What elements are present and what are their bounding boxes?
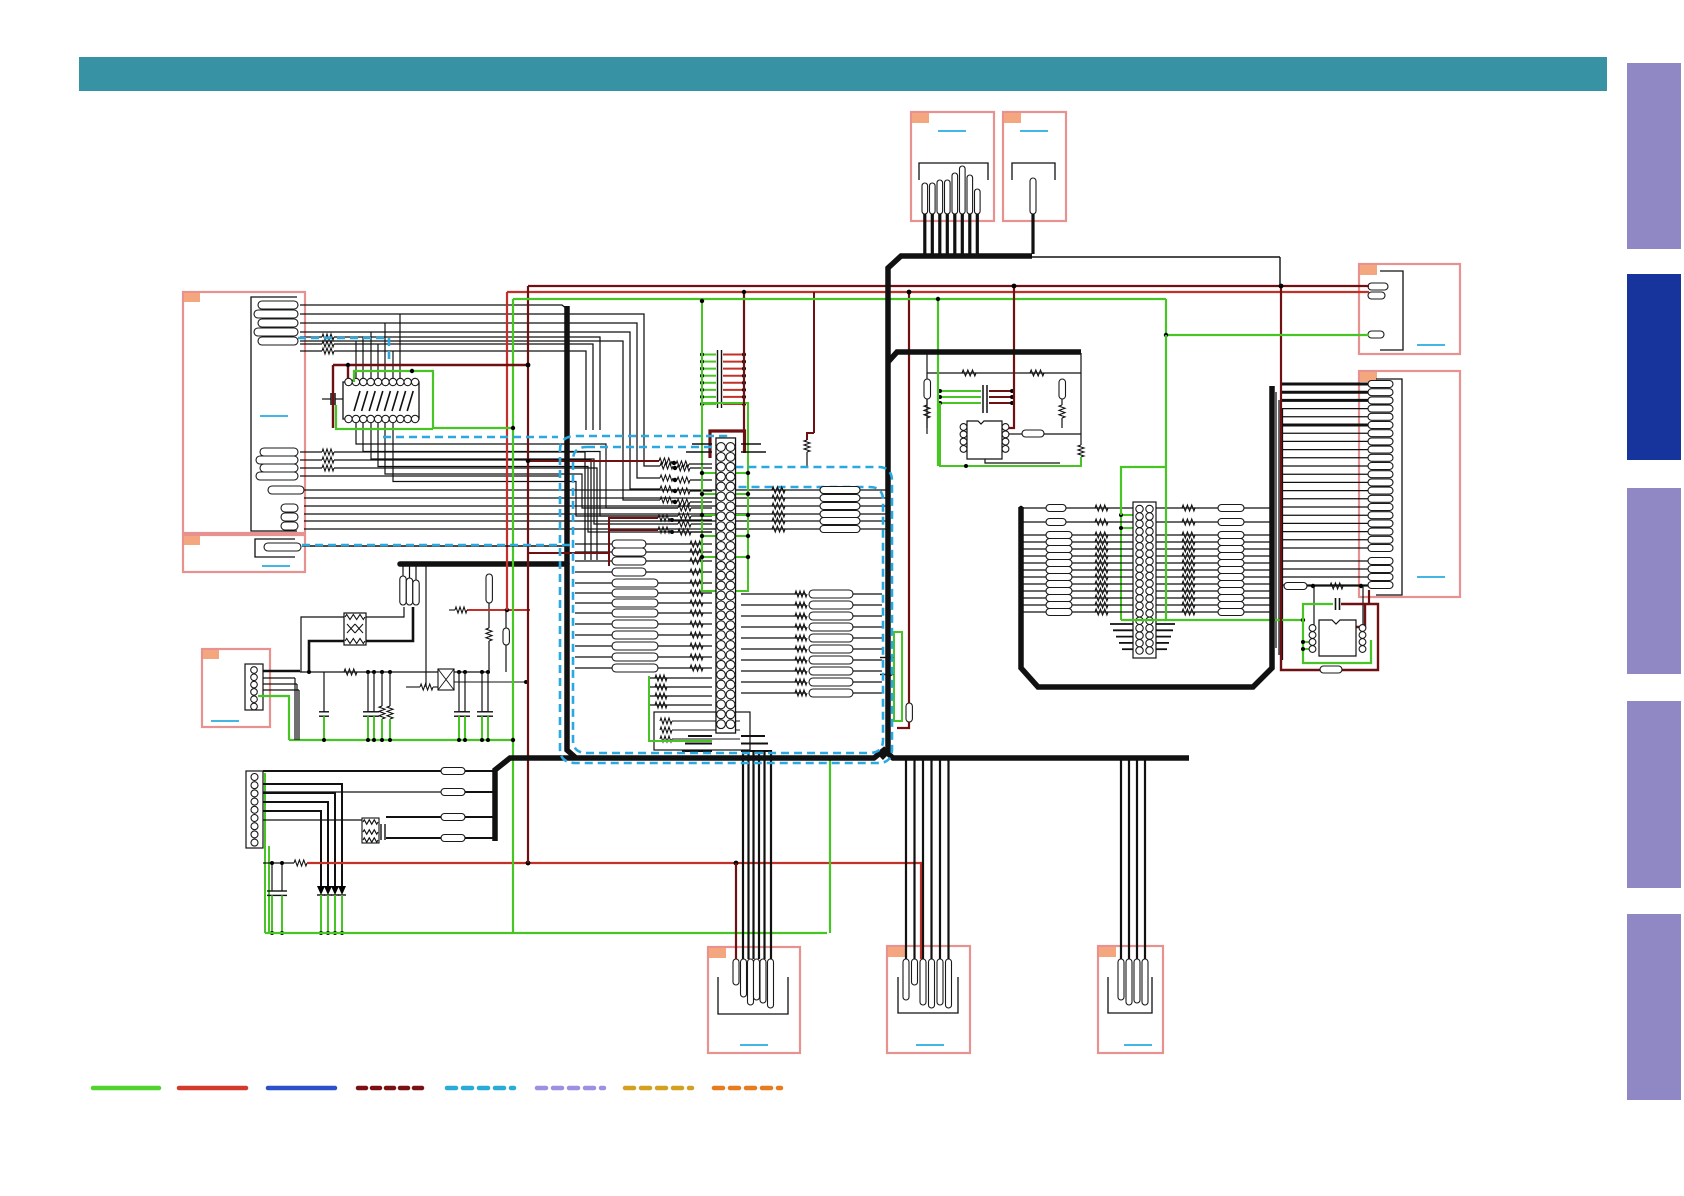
- CN-G connector body: [245, 664, 263, 710]
- pill component x489: [486, 574, 492, 603]
- capacitor near T2: [380, 824, 382, 840]
- resistors on CN-E top bundle: [660, 463, 673, 469]
- module M black bottom wire: [985, 459, 1060, 463]
- wires from IC bottom pins down-right: [356, 423, 678, 508]
- pills under stub bus: [402, 566, 404, 576]
- central pin header circles: [717, 443, 726, 452]
- sidebar tab 3: [1627, 488, 1681, 674]
- green vertical x=830 to bus933: [829, 758, 831, 933]
- maroon vertical x=814 with resistor: [813, 292, 815, 433]
- green L wire in dashed box: [649, 676, 712, 741]
- module M transformer plates: [982, 385, 984, 413]
- dashed harness inner box: [573, 447, 883, 753]
- resistors under IC: [678, 505, 691, 511]
- maroon vertical x=909: [908, 292, 910, 703]
- module L green loop: [1303, 604, 1371, 663]
- teal header bar: [79, 57, 1607, 91]
- module M resistor lower right: [1078, 445, 1084, 457]
- green stubs into right header: [1121, 514, 1135, 516]
- sidebar tab 5: [1627, 914, 1681, 1100]
- black wire from bus end to CN-C: [1032, 256, 1280, 258]
- CN-K bracket: [1108, 977, 1152, 1013]
- wire: CN-E top bundle to center: [300, 305, 567, 309]
- dark red vertical x=1014 into module M: [1009, 286, 1014, 428]
- CN-J pins: [903, 959, 909, 1000]
- CN-C connector bracket: [1380, 271, 1403, 350]
- red wire: resistor + rail y=863: [294, 860, 307, 866]
- connector box CN-J (bottom 2): [887, 946, 970, 1053]
- lower-left green sub-wires inside dashed box: [649, 677, 712, 679]
- maroon branch y=518/530: [609, 518, 658, 553]
- IC U1 hatch marks: [354, 391, 360, 411]
- dashed harness outer box: [560, 436, 892, 763]
- thick U bus right side: [1021, 386, 1272, 687]
- op-amp/IC U1 body: [343, 382, 419, 419]
- thick bus vertical x=567: [567, 306, 576, 758]
- wires from CN-G to the right: [263, 670, 293, 672]
- connector H body: [246, 771, 263, 848]
- legend cyan dashed wire: [447, 1086, 514, 1091]
- right pin header body: [1133, 502, 1156, 658]
- module M left resistor vertical: [926, 399, 928, 405]
- thick main bus y=758: [495, 750, 1189, 841]
- CN-F connector bracket: [255, 539, 295, 557]
- connector box CN-C (right): [1359, 264, 1460, 354]
- central pin header body: [716, 438, 736, 733]
- op-amp U2 in module M: [967, 421, 1002, 459]
- CN-F pin: [264, 543, 301, 551]
- legend blue solid wire: [268, 1086, 335, 1091]
- bundle to CN-K: [1120, 760, 1122, 959]
- connector box CN-I (bottom 1): [708, 947, 800, 1053]
- capacitor array red rungs: [723, 354, 744, 356]
- bundle to CN-I: [742, 750, 744, 959]
- connector box CN-B (top): [1003, 112, 1066, 221]
- legend red solid wire: [179, 1086, 246, 1091]
- module M pill right of U2: [1022, 430, 1044, 437]
- sidebar tab 2 (active): [1627, 274, 1681, 460]
- dark red wire into IC: [333, 364, 530, 366]
- CN-E pin single: [268, 486, 304, 494]
- module L bottom pill: [1320, 666, 1342, 673]
- module M green bottom wire: [940, 403, 1081, 466]
- wire: CN-E mid group with resistors: [300, 451, 322, 453]
- resistor left of X1: [406, 686, 420, 688]
- green rail y=299: [513, 298, 1166, 300]
- module M top resistor row: [927, 372, 1081, 374]
- connector box CN-E (left tall): [183, 292, 305, 533]
- CN-A pins: [922, 183, 928, 214]
- pill cluster left-inside dashed box: [612, 540, 646, 548]
- h-wires with resistors inside dashed box: [690, 541, 703, 547]
- module L IC circles: [1309, 625, 1316, 632]
- legend green solid wire: [93, 1086, 159, 1091]
- 4 wires with pills to thick bus stub: [263, 770, 441, 772]
- connector box CN-A (top): [911, 112, 994, 221]
- horizontal wire y=672: [263, 670, 300, 673]
- connector box CN-K (bottom 3): [1098, 946, 1163, 1053]
- transformer T1: [344, 613, 366, 645]
- wire: CN-E long wires to pill column: [304, 489, 888, 491]
- module M right pill: [1059, 379, 1066, 399]
- CN-A connector bracket: [919, 163, 988, 180]
- green loop around central header: [702, 403, 748, 591]
- wire right of X1: [454, 681, 528, 683]
- pill component x506: [505, 610, 507, 628]
- diodes D1-D4: [338, 886, 346, 895]
- wires from IC top pins up: [355, 341, 357, 378]
- CN-D connector bracket: [1376, 379, 1402, 595]
- wire H to T2: [263, 819, 362, 821]
- dashed harness lead from CN-E: [298, 337, 389, 340]
- red wire y=610: [467, 609, 530, 611]
- green vertical x=938 module M loop: [937, 299, 939, 466]
- CN-B connector bracket: [1012, 163, 1055, 180]
- module M outline: [926, 353, 928, 434]
- green wire from CN-G: [258, 696, 289, 740]
- sidebar tab 4: [1627, 701, 1681, 888]
- legend dark-red dashed wire: [358, 1086, 425, 1091]
- T1 wires: [301, 617, 344, 672]
- connector box CN-F (left small): [183, 535, 305, 572]
- transformer T2: [362, 818, 379, 843]
- maroon vertical x=744 to header: [743, 292, 745, 432]
- CN-D fan wires: [1281, 383, 1368, 386]
- CN-E connector bracket: [251, 297, 297, 531]
- module M transformer red wires: [989, 390, 1014, 392]
- capacitor array plates: [717, 350, 719, 408]
- red wire: vertical to CN-J: [917, 863, 921, 959]
- legend gold dashed wire: [625, 1086, 692, 1091]
- green stubs into central header: [702, 472, 716, 474]
- green path right: down to right header: [1165, 335, 1167, 620]
- green bus y=933: [265, 932, 827, 934]
- black wire under CN-F dashed pair: [302, 545, 567, 547]
- pill column x822: [820, 487, 860, 494]
- wires from connector H: [263, 784, 342, 886]
- CN-J bracket: [898, 977, 958, 1013]
- bundle to CN-J: [905, 760, 907, 959]
- wire: CN-E wires with resistors row2: [300, 336, 322, 338]
- CN-B pin wire: [1031, 214, 1034, 254]
- module L top capacitor: [1335, 598, 1337, 610]
- CN-K pins: [1118, 959, 1124, 1000]
- wire from bus to X1: [425, 566, 427, 687]
- right header green loop: [1120, 515, 1122, 620]
- right pin header circles: [1136, 505, 1143, 512]
- legend purple dashed wire: [537, 1086, 604, 1091]
- right header bottom stubs: [1110, 623, 1133, 625]
- IC U1 top pin circles: [345, 378, 352, 385]
- maroon wire: top rail y=286: [528, 285, 1369, 287]
- maroon branch y=461: [528, 460, 659, 462]
- green bus y=740: [289, 739, 513, 741]
- maroon vertical to CN-I: [735, 863, 737, 959]
- red wire bright: top rail y=292: [507, 291, 1369, 293]
- CN-E pin group top: [258, 301, 298, 309]
- sidebar tab 1: [1627, 63, 1681, 249]
- CN-C pins: [1368, 283, 1388, 290]
- CN-A pin wires to bus: [923, 214, 926, 254]
- vertical resistors to green bus: [381, 672, 383, 706]
- CN-B pin: [1030, 178, 1036, 214]
- CN-D pins: [1368, 381, 1393, 388]
- module M transformer green wires: [940, 390, 981, 392]
- IC U1 bottom pin circles: [345, 415, 352, 422]
- thick bus branch y=352: [888, 352, 1081, 362]
- connector H circles: [251, 774, 258, 781]
- header top stubs: [692, 443, 712, 445]
- module L dark red border: [1281, 604, 1378, 670]
- crystal X1: [438, 669, 454, 690]
- module M left pill: [924, 379, 931, 399]
- CN-G pin circles: [251, 667, 258, 674]
- connector box CN-D (right tall): [1359, 371, 1460, 597]
- maroon vertical x=528: [527, 286, 529, 863]
- maroon branch y=553: [528, 553, 609, 566]
- green wire IC loop: [354, 371, 513, 428]
- CN-I bracket: [718, 977, 788, 1014]
- green vertical x=702 feed: [701, 301, 703, 405]
- sub-box at bottom of dashed box: [654, 712, 750, 750]
- maroon stub above module L: [1368, 590, 1370, 604]
- module M right resistor vertical: [1061, 399, 1063, 405]
- header bottom stubs: [688, 735, 712, 737]
- thick stub bus y=564: [400, 561, 567, 567]
- capacitor C1 at IC left: [322, 398, 331, 400]
- connector H green loop: [264, 773, 266, 933]
- dashed harness lead from CN-F: [302, 544, 572, 547]
- pill over harness: [820, 487, 860, 494]
- green loop at dashed box edge: [894, 632, 902, 721]
- right region horizontal wires left of header: [1021, 507, 1133, 509]
- module L IC body: [1319, 620, 1356, 656]
- green rail y=620 to module L: [1121, 619, 1303, 621]
- CN-I pins: [733, 959, 739, 985]
- green vertical x=513: [512, 299, 514, 933]
- dark red n-shape over header: [710, 431, 745, 458]
- connector box CN-G (left mid): [202, 649, 270, 727]
- CN-E pin group mid: [260, 448, 298, 456]
- CN-D bottom cluster verticals to module L: [1313, 586, 1315, 626]
- CN-D fan bundle verticals: [1275, 392, 1277, 648]
- right-inside pills and wires: [741, 593, 806, 595]
- caps to green bus: [323, 672, 325, 712]
- caps under junction: [271, 863, 273, 891]
- maroon rail to module L: [1280, 286, 1282, 619]
- green path to CN-C pin: [1166, 299, 1369, 335]
- CN-E pin group low: [281, 504, 298, 512]
- capacitor array ladder green rungs: [702, 354, 716, 356]
- thick bus from CN-A/B down: [881, 256, 1032, 758]
- red wire bright: vertical x=507: [506, 292, 508, 610]
- central pin header body (over harness): [716, 438, 736, 733]
- right region horizontal wires right of header: [1155, 507, 1272, 509]
- CN-D bottom cluster wire: [1285, 585, 1368, 587]
- legend orange dashed wire: [714, 1086, 781, 1091]
